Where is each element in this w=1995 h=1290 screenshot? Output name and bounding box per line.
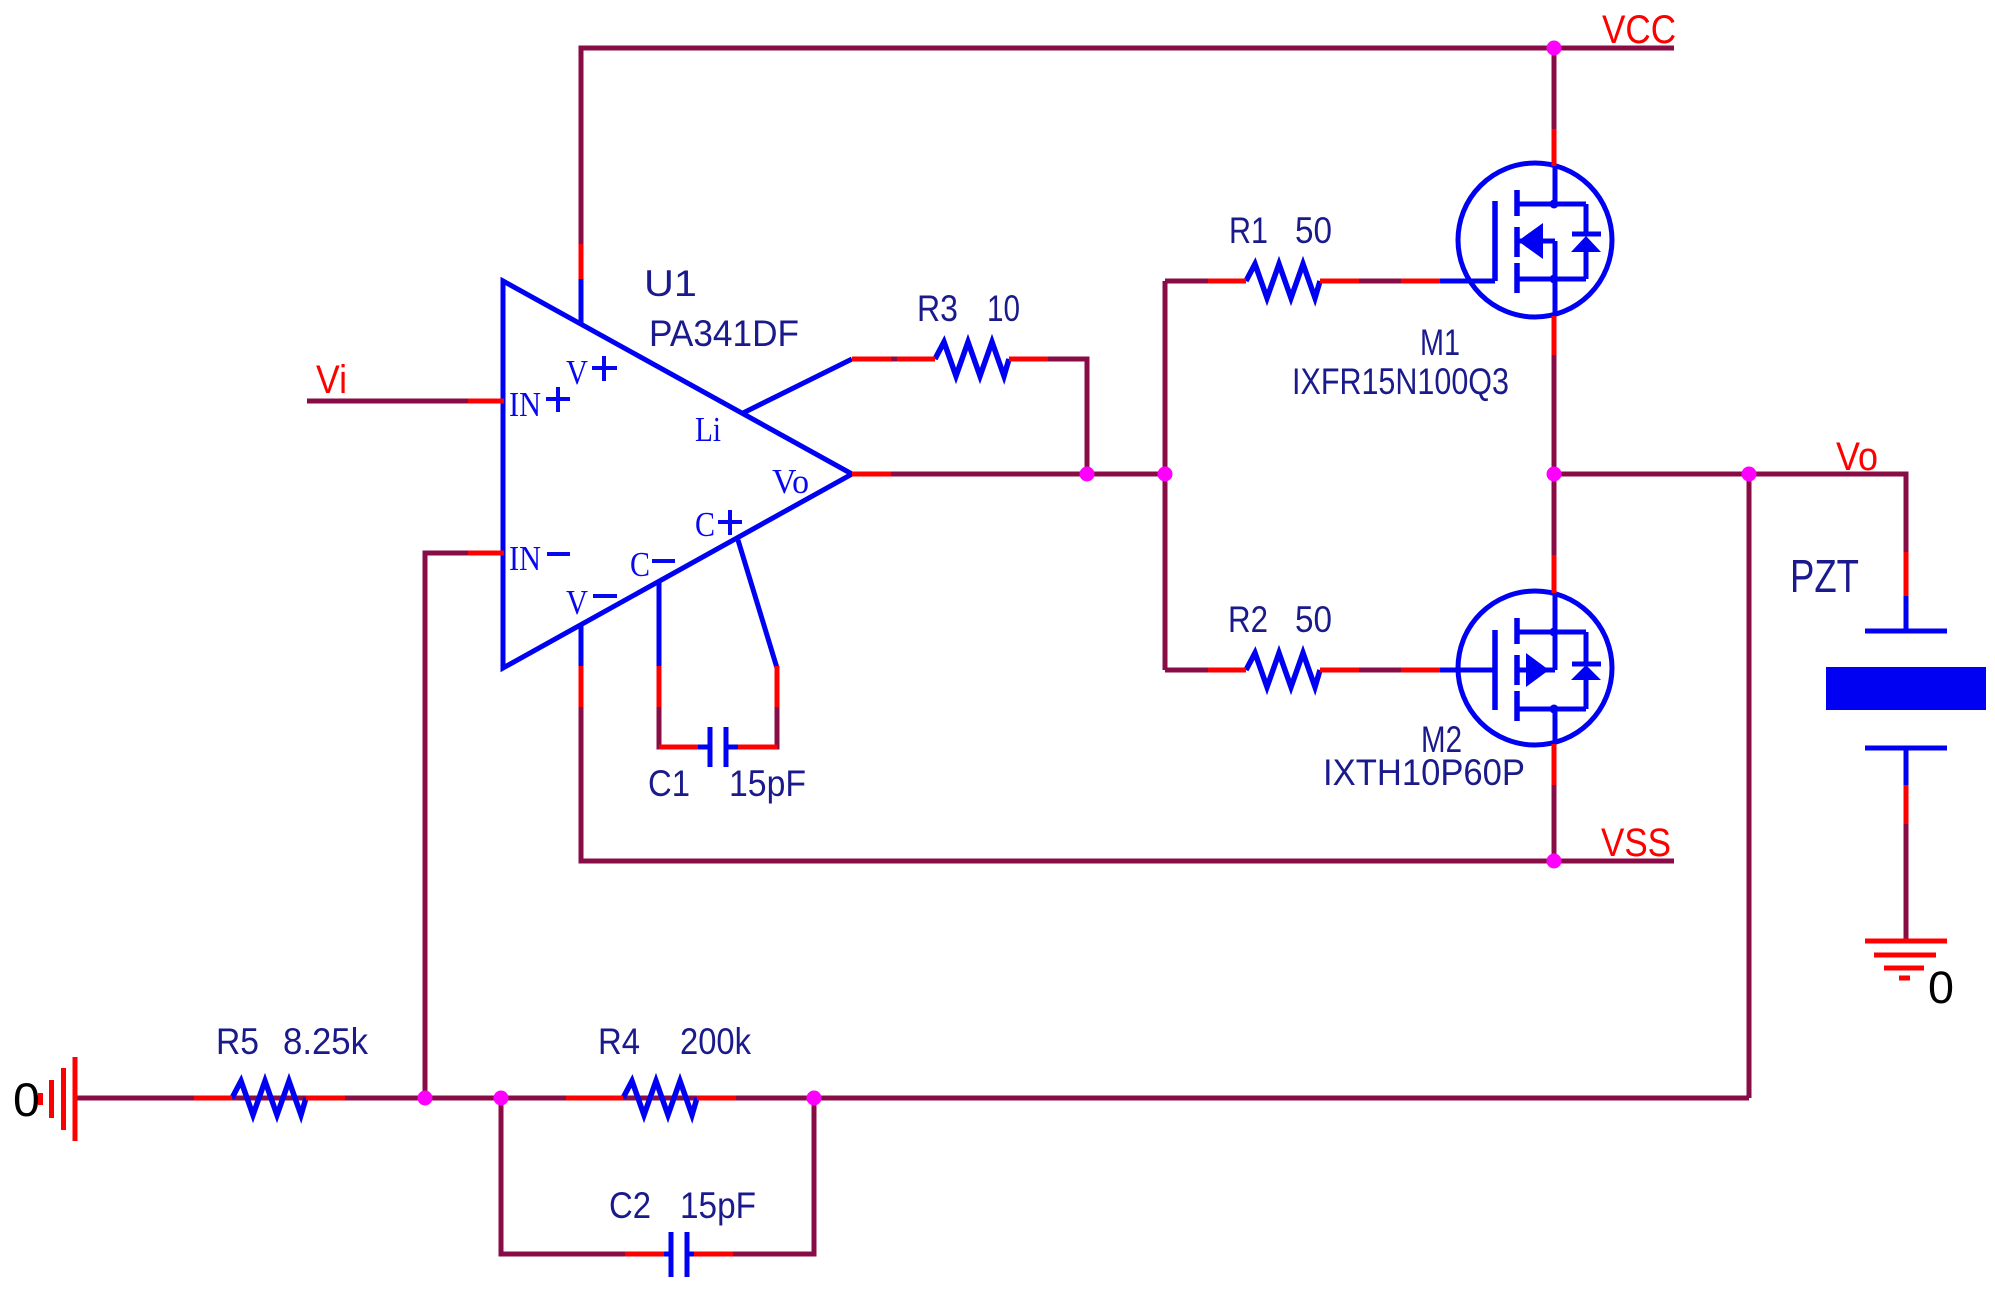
wire R1 right to M1 gate bbox=[1359, 279, 1401, 284]
PZT transducer crystal slab bbox=[1826, 667, 1986, 710]
transistor M1 source pin red bbox=[1552, 316, 1557, 355]
transistor M1 body diode cathode bar bbox=[1572, 232, 1601, 237]
capacitor C1 right pin red bbox=[738, 745, 777, 750]
resistor R5 right pin red bbox=[306, 1096, 345, 1101]
svg-text:R3: R3 bbox=[917, 288, 958, 329]
resistor R1 left pin red bbox=[1208, 279, 1246, 284]
svg-text:10: 10 bbox=[987, 288, 1020, 329]
transistor M2 source lead blue bbox=[1553, 709, 1558, 744]
transistor M2 body-drain tie bbox=[1553, 632, 1558, 670]
svg-text:R2: R2 bbox=[1228, 599, 1268, 640]
svg-text:C: C bbox=[630, 545, 650, 584]
wire R2 left segment bbox=[1165, 668, 1208, 673]
transistor M2 body horizontal bbox=[1517, 668, 1555, 673]
wire V- to VSS rail bbox=[581, 707, 1674, 861]
transistor M1 drain lead blue bbox=[1553, 166, 1558, 204]
wire IN- feedback vertical bbox=[425, 553, 468, 1098]
resistor R1 right pin red bbox=[1320, 279, 1359, 284]
resistor R4 left pin red bbox=[566, 1096, 623, 1101]
svg-text:R4: R4 bbox=[598, 1021, 640, 1062]
resistor R4 right pin red bbox=[697, 1096, 736, 1101]
svg-text:50: 50 bbox=[1295, 210, 1332, 251]
svg-text:15pF: 15pF bbox=[680, 1185, 756, 1226]
svg-text:V: V bbox=[566, 583, 588, 622]
transistor M1 body-source tie bbox=[1553, 241, 1558, 279]
transistor M1 channel dashes bbox=[1514, 190, 1520, 293]
svg-text:IN: IN bbox=[509, 385, 541, 424]
svg-text:PA341DF: PA341DF bbox=[649, 313, 799, 354]
capacitor C2 right pin red bbox=[694, 1252, 733, 1257]
op-amp U1 pin Li red stub bbox=[852, 357, 891, 362]
PZT transducer top plate bbox=[1865, 629, 1947, 634]
svg-text:IXFR15N100Q3: IXFR15N100Q3 bbox=[1292, 361, 1509, 402]
wire C2 left branch bbox=[501, 1098, 625, 1254]
op-amp U1 pin V+ red stub bbox=[579, 244, 584, 281]
resistor R2 left pin red bbox=[1208, 668, 1246, 673]
svg-text:R5: R5 bbox=[216, 1021, 259, 1062]
capacitor C2 left pin red bbox=[625, 1252, 664, 1257]
svg-text:U1: U1 bbox=[644, 263, 697, 304]
transistor M1 IXFR15N100Q3 circle bbox=[1458, 163, 1612, 317]
svg-text:M1: M1 bbox=[1420, 322, 1460, 363]
capacitor C1 right plate bbox=[724, 727, 729, 767]
wire C1 left branch from C- pin bbox=[659, 707, 664, 747]
junction node Vo/gate column bbox=[1158, 467, 1173, 482]
resistor R2 right pin red bbox=[1320, 668, 1359, 673]
wire Vo feedback vertical bbox=[1747, 474, 1752, 1098]
junction node IN-/bottom rail bbox=[418, 1091, 433, 1106]
transistor M2 pin nub top bbox=[1550, 628, 1559, 637]
wire C1 right branch from C+ pin bbox=[772, 707, 777, 747]
svg-text:VSS: VSS bbox=[1601, 821, 1671, 865]
op-amp U1 PA341DF triangle body bbox=[503, 281, 852, 668]
capacitor C1 15pF left plate bbox=[708, 727, 713, 767]
transistor M1 arrow bbox=[1518, 223, 1543, 259]
junction node VCC/M1 drain bbox=[1547, 41, 1562, 56]
svg-text:IXTH10P60P: IXTH10P60P bbox=[1323, 752, 1525, 793]
wire PZT bottom to ground bbox=[1904, 824, 1909, 941]
svg-text:Vo: Vo bbox=[772, 462, 809, 501]
svg-text:200k: 200k bbox=[680, 1021, 751, 1062]
wire Vi input to IN+ bbox=[307, 399, 468, 404]
resistor R3 right pin red bbox=[1009, 357, 1048, 362]
PZT transducer bottom plate bbox=[1865, 746, 1947, 751]
svg-text:Vi: Vi bbox=[316, 358, 347, 402]
transistor M1 body horizontal bbox=[1517, 239, 1555, 244]
svg-text:C: C bbox=[695, 505, 715, 544]
transistor M2 gate bar bbox=[1492, 630, 1498, 710]
capacitor C1 left pin red bbox=[659, 745, 698, 750]
transistor M2 drain horizontal bbox=[1517, 630, 1586, 635]
capacitor C2 right blue tick bbox=[689, 1252, 698, 1257]
wire M1 drain to VCC rail bbox=[1552, 48, 1557, 129]
transistor M2 source horizontal bbox=[1517, 707, 1586, 712]
resistor R1 50 zigzag bbox=[1246, 264, 1320, 298]
op-amp U1 pin IN+ red stub bbox=[468, 399, 504, 404]
resistor R5 8.25k zigzag bbox=[232, 1081, 306, 1115]
wire Vo pin to R1/R2 column bbox=[891, 472, 1165, 477]
resistor R2 50 zigzag bbox=[1246, 653, 1320, 687]
op-amp U1 pin C+ blue lead bbox=[738, 540, 777, 668]
svg-text:8.25k: 8.25k bbox=[283, 1021, 368, 1062]
PZT transducer top lead blue bbox=[1904, 596, 1909, 631]
svg-text:C1: C1 bbox=[648, 763, 690, 804]
capacitor C2 left blue tick bbox=[660, 1252, 669, 1257]
transistor M2 drain lead blue bbox=[1553, 593, 1558, 632]
transistor M2 drain pin red bbox=[1552, 555, 1557, 593]
wire R1 left segment bbox=[1165, 279, 1208, 284]
transistor M1 gate lead blue bbox=[1440, 279, 1495, 284]
transistor M1 gate pin red bbox=[1401, 279, 1440, 284]
op-amp U1 pin Vo red stub bbox=[852, 472, 891, 477]
svg-text:50: 50 bbox=[1295, 599, 1332, 640]
wire output node to PZT bbox=[1554, 474, 1906, 552]
wire R2 right to M2 gate bbox=[1359, 668, 1401, 673]
junction node VSS/M2 source bbox=[1547, 854, 1562, 869]
transistor M2 source pin red bbox=[1552, 744, 1557, 785]
transistor M2 body diode leads bbox=[1584, 632, 1589, 709]
junction node Vo/feedback bbox=[1742, 467, 1757, 482]
wire Li pin to R3 bbox=[891, 357, 897, 362]
wire C2 right branch bbox=[733, 1098, 814, 1254]
transistor M1 drain pin red bbox=[1552, 129, 1557, 166]
PZT transducer bottom pin red bbox=[1904, 785, 1909, 824]
junction node M1-M2 output bbox=[1547, 467, 1562, 482]
transistor M2 IXTH10P60P circle bbox=[1458, 591, 1612, 745]
capacitor C1 left blue tick bbox=[698, 745, 708, 750]
svg-text:R1: R1 bbox=[1229, 210, 1268, 251]
capacitor C2 15pF left plate bbox=[669, 1232, 674, 1277]
op-amp U1 pin V+ blue lead bbox=[579, 279, 584, 324]
op-amp U1 pin IN- red stub bbox=[468, 551, 504, 556]
op-amp U1 pin V- blue lead bbox=[579, 625, 584, 668]
transistor M1 gate bar bbox=[1492, 201, 1498, 281]
junction node R3/Vo bbox=[1080, 467, 1095, 482]
svg-text:Vo: Vo bbox=[1836, 435, 1878, 479]
capacitor C1 right blue tick bbox=[728, 745, 738, 750]
junction node C2 right/R4 bbox=[807, 1091, 822, 1106]
svg-text:15pF: 15pF bbox=[729, 763, 806, 804]
transistor M1 body diode leads bbox=[1584, 204, 1589, 279]
op-amp U1 pin C- blue lead bbox=[657, 582, 662, 668]
svg-text:0: 0 bbox=[13, 1073, 40, 1126]
wire R1/R2 gate column vertical bbox=[1163, 281, 1168, 670]
op-amp U1 pin V- red stub bbox=[579, 666, 584, 707]
transistor M2 body diode cathode bar bbox=[1572, 662, 1601, 667]
svg-text:0: 0 bbox=[1928, 962, 1954, 1013]
transistor M1 body diode triangle bbox=[1571, 236, 1601, 252]
transistor M2 pin nub bottom bbox=[1550, 705, 1559, 714]
wire M1 source to M2 drain bbox=[1552, 355, 1557, 555]
PZT transducer bottom lead blue bbox=[1904, 748, 1909, 785]
op-amp U1 pin C+ red stub bbox=[775, 666, 780, 707]
svg-text:C2: C2 bbox=[609, 1185, 651, 1226]
transistor M1 source lead blue bbox=[1553, 279, 1558, 316]
op-amp U1 pin C- red stub bbox=[657, 666, 662, 707]
svg-text:Li: Li bbox=[695, 410, 721, 449]
transistor M2 body diode triangle bbox=[1571, 665, 1601, 680]
transistor M1 drain horizontal bbox=[1517, 202, 1586, 207]
junction node C2 left bbox=[494, 1091, 509, 1106]
capacitor C2 right plate bbox=[685, 1232, 690, 1277]
resistor R5 left pin red bbox=[194, 1096, 232, 1101]
svg-text:VCC: VCC bbox=[1602, 8, 1676, 52]
transistor M1 pin nub top bbox=[1550, 200, 1559, 209]
op-amp U1 pin Li blue lead bbox=[743, 359, 852, 413]
ground 0 under PZT bbox=[1865, 941, 1947, 978]
resistor R3 10 zigzag bbox=[935, 342, 1009, 376]
svg-text:IN: IN bbox=[509, 539, 541, 578]
PZT transducer top pin red bbox=[1904, 552, 1909, 596]
transistor M2 gate lead blue bbox=[1440, 668, 1495, 673]
wire VCC rail with drop to op-amp V+ bbox=[581, 48, 1674, 245]
transistor M2 arrow bbox=[1526, 653, 1549, 687]
wire M2 source to VSS rail bbox=[1552, 785, 1557, 861]
resistor R4 200k zigzag bbox=[623, 1081, 697, 1115]
transistor M1 source horizontal bbox=[1517, 277, 1586, 282]
svg-text:V: V bbox=[566, 353, 588, 392]
transistor M2 gate pin red bbox=[1401, 668, 1440, 673]
wire R3 output down to Vo net bbox=[1048, 359, 1087, 474]
wire bottom feedback rail bbox=[77, 1096, 1749, 1101]
transistor M1 pin nub bottom bbox=[1550, 275, 1559, 284]
resistor R3 left pin red bbox=[897, 357, 935, 362]
svg-text:PZT: PZT bbox=[1790, 550, 1859, 602]
transistor M2 channel dashes bbox=[1514, 618, 1520, 721]
ground 0 at far left bbox=[41, 1057, 76, 1141]
